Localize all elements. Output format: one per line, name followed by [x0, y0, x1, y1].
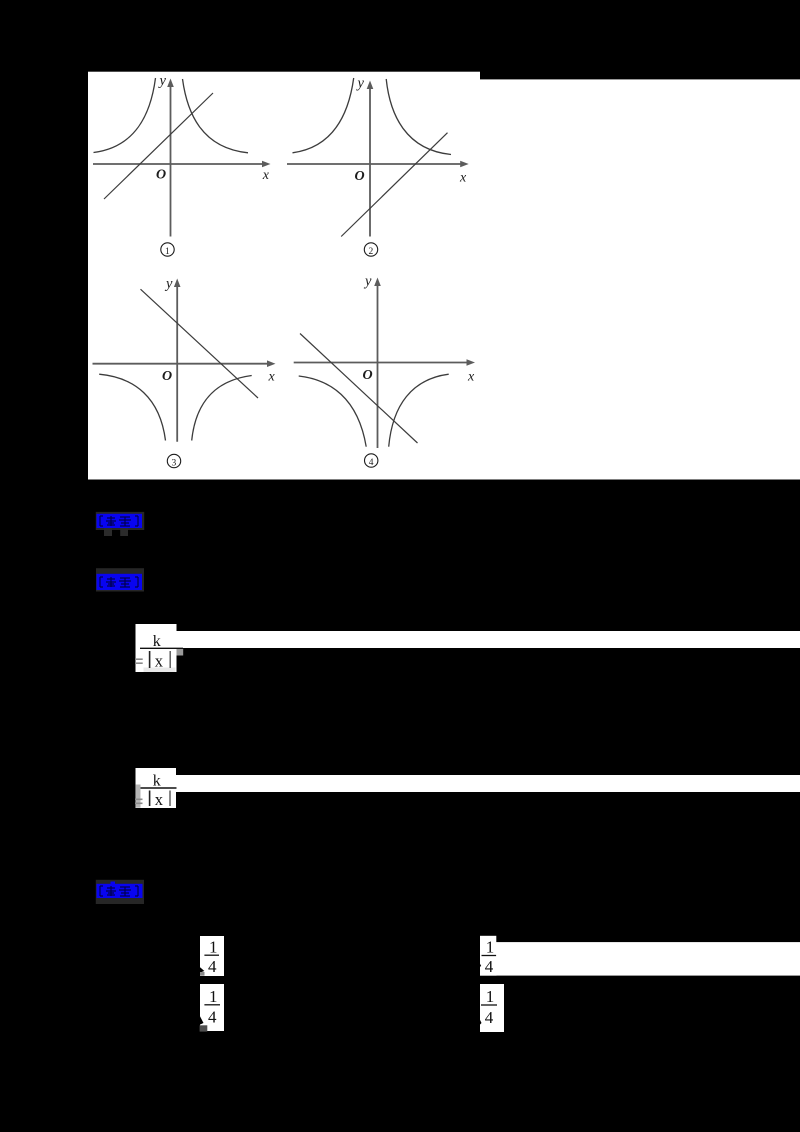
plot3 straight line	[141, 289, 259, 398]
formula1 fraction bar	[140, 647, 183, 649]
plot2 hyperbola left branch	[293, 78, 354, 153]
plot1 straight line	[104, 93, 213, 199]
svg-text:4: 4	[208, 1007, 217, 1026]
fractionA white box	[200, 936, 224, 976]
heading1 descender blob left	[104, 528, 112, 536]
svg-text:1: 1	[165, 247, 170, 257]
plot1 hyperbola left branch	[94, 78, 156, 153]
svg-text:1: 1	[486, 937, 495, 956]
fractionB bar	[204, 1004, 220, 1006]
fractionA left black notch	[200, 967, 205, 973]
svg-text:k: k	[153, 773, 161, 790]
formula1 abs bars	[149, 651, 151, 668]
fractionC left black mark	[480, 963, 482, 967]
plot4 hyperbola right-lower branch	[389, 374, 449, 447]
svg-text:y: y	[363, 274, 372, 290]
fractionD white box	[480, 984, 504, 1032]
plot1 circled number 1	[161, 243, 174, 256]
svg-text:4: 4	[369, 458, 374, 468]
svg-text:y: y	[356, 76, 365, 92]
svg-text:2: 2	[369, 247, 374, 257]
svg-text:x: x	[155, 652, 164, 671]
plot2 x-axis	[287, 161, 469, 168]
heading2 blue highlight box	[97, 574, 143, 590]
svg-text:1: 1	[209, 987, 218, 1006]
svg-text:O: O	[156, 168, 166, 183]
heading3 gray fringe	[96, 880, 144, 904]
formula2 white strip to right edge	[176, 775, 800, 792]
plot1 y-axis	[167, 79, 174, 237]
heading3 glyph strokes	[100, 886, 138, 896]
plot2 straight line	[341, 133, 447, 237]
plot4 circled number 4	[365, 454, 378, 467]
fractionC white strip to right edge	[496, 942, 800, 976]
fractionB dark gray square	[200, 1025, 208, 1031]
plot2 hyperbola right branch	[386, 79, 451, 155]
white band: graphs figure background left part	[88, 72, 480, 480]
svg-text:x: x	[155, 790, 164, 809]
fractionC white box	[480, 936, 496, 976]
svg-text:3: 3	[172, 459, 177, 469]
fractionD bar	[481, 1004, 497, 1006]
plot1 hyperbola right branch	[183, 79, 249, 153]
fractionA gray blob	[200, 972, 205, 976]
svg-text:4: 4	[208, 957, 217, 976]
plot1 x-axis	[93, 161, 271, 168]
formula1 equals sign	[135, 659, 143, 663]
formula2 abs bars	[149, 791, 151, 807]
fractionB white box	[200, 984, 224, 1031]
svg-text:1: 1	[209, 937, 218, 956]
svg-text:O: O	[355, 169, 365, 184]
formula1 bottom light edge	[144, 668, 176, 673]
formula1 white strip to right edge	[177, 631, 800, 648]
formula2 white image box	[136, 768, 177, 808]
plot2 circled number 2	[364, 243, 377, 256]
svg-text:4: 4	[485, 957, 494, 976]
plot4 straight line	[300, 334, 418, 444]
svg-text:x: x	[459, 171, 467, 186]
svg-text:x: x	[268, 370, 276, 385]
formula1 white image box	[136, 624, 177, 672]
plot4 y-axis	[374, 278, 381, 449]
fractionB left black notch	[200, 1016, 204, 1025]
svg-text:y: y	[164, 276, 173, 292]
plot3 x-axis	[93, 360, 276, 367]
formula1 gray square right of box	[177, 649, 184, 656]
svg-text:4: 4	[485, 1008, 494, 1027]
svg-text:k: k	[153, 633, 161, 650]
svg-text:1: 1	[486, 987, 495, 1006]
heading1 gray fringe	[96, 512, 144, 530]
heading1 descender blob right	[120, 528, 128, 536]
plot4 hyperbola left-lower branch	[299, 376, 367, 447]
heading3 blue highlight box	[97, 884, 143, 898]
plot3 hyperbola right-lower branch	[192, 376, 252, 441]
heading3 blue nub	[111, 882, 116, 885]
formula2 equals sign	[135, 799, 143, 803]
svg-text:O: O	[162, 369, 172, 384]
fractionA bar	[204, 954, 219, 956]
heading2 gray fringe	[96, 568, 144, 591]
plot3 hyperbola left-lower branch	[99, 374, 165, 440]
plot3 y-axis	[174, 279, 181, 442]
plot3 circled number 3	[167, 454, 180, 467]
heading2 glyph strokes	[100, 577, 138, 587]
white band: right part (lower top edge)	[480, 79, 800, 479]
svg-text:O: O	[363, 368, 373, 383]
heading1 glyph strokes	[100, 516, 138, 526]
svg-text:y: y	[158, 73, 167, 89]
heading1 blue highlight box	[97, 514, 143, 528]
fractionC bar	[482, 955, 497, 957]
formula2 fraction bar	[141, 787, 177, 789]
plot4 x-axis	[294, 359, 475, 366]
svg-text:x: x	[467, 370, 475, 385]
fractionD left black mark	[480, 1019, 482, 1025]
svg-text:x: x	[262, 168, 270, 183]
formula2 left gray fringe	[136, 785, 141, 808]
plot2 y-axis	[367, 81, 374, 237]
